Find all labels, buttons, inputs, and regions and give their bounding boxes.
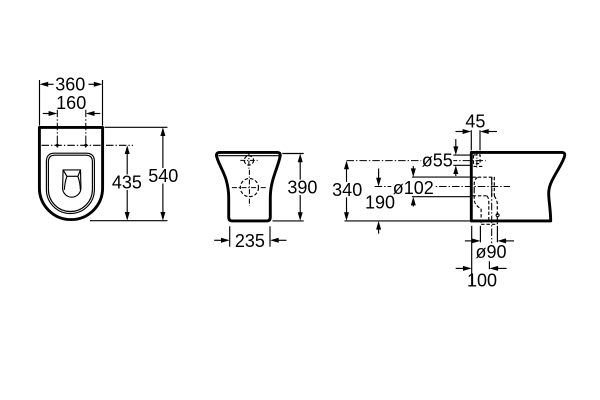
plan-view flush funnel outer outline (63, 170, 81, 197)
dim 190 lower arrow (outside, pointing up) (376, 221, 381, 230)
trap joint collar right line (hidden) (493, 177, 495, 196)
dim ø90 left arrow (472, 238, 481, 243)
front-view rim back edge line (218, 155, 279, 157)
dim 160 left extension line (dash-dot) (56, 110, 58, 146)
svg-text:100: 100 (467, 271, 497, 291)
svg-text:160: 160 (56, 93, 86, 113)
dim 390 top arrow (298, 154, 303, 163)
dim 360 right extension line (102, 80, 104, 126)
plan-view seat rim outer line (46, 153, 94, 213)
dim 435 bottom arrow (125, 212, 130, 221)
dim 340 top arrow (344, 161, 349, 170)
dim 45 left arrow (463, 129, 472, 134)
dim label ø102 (391, 180, 435, 196)
plan-view funnel left taper line (63, 170, 67, 176)
toilet side-view body outline (471, 152, 564, 221)
toilet plan-view body outline (39, 127, 102, 219)
trap inner elbow curve (hidden) (487, 196, 489, 221)
svg-text:235: 235 (235, 231, 265, 251)
dim 390 bottom arrow (298, 212, 303, 221)
dim 390 top extension line (282, 153, 303, 155)
dim 45 left extension line (470, 130, 472, 150)
svg-text:435: 435 (112, 173, 142, 193)
small fixing hole circle (496, 214, 499, 217)
horizontal outlet centre line (dash-dot) (375, 186, 510, 188)
dim 360 left arrow (40, 82, 49, 87)
water inlet socket (dashed rect) (474, 155, 481, 164)
dim 540 bottom arrow (160, 212, 165, 221)
dim ø55 bottom extension line (451, 164, 471, 166)
dim 100 right extension line (488, 261, 490, 269)
floor extension line (345, 220, 471, 222)
inlet hole vertical centre line (248, 151, 250, 169)
vertical outlet bottom cap (hidden) (481, 223, 497, 225)
dim 540 top extension line (105, 126, 168, 128)
trap joint collar left line (hidden) (491, 177, 493, 196)
dim 340 bottom arrow (344, 212, 349, 221)
plan-view seat rim inner line (48, 155, 92, 211)
dim label ø55 (421, 152, 453, 168)
dim ø55 upper arrow (453, 146, 458, 155)
dim 160 right extension line (dash-dot) (85, 110, 87, 146)
plan-view fixing-holes centre line (dash-dot) (42, 144, 134, 146)
outlet hole horizontal centre line (232, 187, 267, 189)
dim 390 bottom extension line (273, 220, 304, 222)
svg-text:ø55: ø55 (422, 151, 453, 171)
svg-text:340: 340 (332, 180, 362, 200)
dim 540 top arrow (160, 127, 165, 136)
toilet front-view body outline (216, 152, 280, 221)
front-view outlet hole circle (dashed) (240, 179, 258, 197)
dim ø102 upper arrow (411, 168, 416, 177)
dim ø102 top extension line (412, 176, 470, 178)
dim label 190 (364, 194, 397, 210)
water inlet lower hidden edge (474, 165, 484, 167)
dim ø102 bottom extension line (412, 196, 470, 198)
dim ø90 left extension line (479, 226, 481, 243)
trap end-face curve at wall (hidden) (474, 177, 477, 190)
dim label 435 (110, 174, 143, 190)
dim 235 left arrow (221, 238, 230, 243)
dim 235 left extension line (229, 226, 231, 246)
dim 160 right arrow (86, 111, 95, 116)
svg-text:ø102: ø102 (393, 178, 434, 198)
trap left elbow curve down to vertical outlet (hidden) (474, 190, 481, 224)
dim 45 right extension line (479, 130, 481, 150)
dim 100 left arrow (463, 266, 472, 271)
inlet vertical centre line (476, 151, 478, 168)
dim ø55 top extension line (451, 154, 471, 156)
plan-view funnel hole left side (64, 176, 67, 190)
dim 235 right arrow (270, 238, 279, 243)
dim ø55 lower arrow (453, 165, 458, 174)
dim label 540 (147, 168, 180, 184)
dim ø102 lower arrow (411, 197, 416, 206)
dim 190 upper arrow (outside, pointing down) (376, 178, 381, 187)
dim 390 dimension line (299, 157, 301, 217)
dim ø90 right arrow (497, 238, 506, 243)
svg-text:360: 360 (55, 75, 85, 95)
trap horizontal outlet top edge (hidden) (473, 176, 492, 178)
dim 435 dimension line (126, 149, 128, 217)
plan-view funnel hole right side (78, 176, 81, 190)
front-view cistern inlet hole circle (dashed) (244, 156, 253, 165)
dim ø90 right extension line (496, 226, 498, 243)
right fixing-hole marker diamond (83, 143, 89, 149)
svg-text:45: 45 (465, 112, 485, 132)
svg-text:190: 190 (365, 192, 395, 212)
dim 435 top arrow (125, 145, 130, 154)
dim 540 dimension line (162, 131, 164, 217)
dim label 390 (286, 180, 319, 196)
svg-text:ø90: ø90 (475, 242, 506, 262)
dim 160 left arrow (49, 111, 58, 116)
outlet hole vertical centre line (248, 170, 250, 206)
svg-text:390: 390 (287, 178, 317, 198)
dim 360 right arrow (94, 82, 103, 87)
dim 360 left extension line (39, 80, 41, 126)
inlet hole horizontal centre line (240, 159, 257, 161)
plan-view flush funnel inner top edge (67, 175, 78, 177)
dim 45 right arrow (480, 129, 489, 134)
inlet horizontal centre line (dash-dot) (347, 160, 486, 162)
trap right edge curve to vertical outlet (hidden) (494, 196, 497, 224)
shared bottom extension line for 435/540 (90, 220, 168, 222)
dim 340 dimension line (346, 164, 348, 217)
vertical outlet centre line (dash-dot) (491, 177, 493, 243)
dim label 340 (331, 182, 364, 198)
dim 235 right extension line (269, 226, 271, 246)
left fixing-hole marker diamond (55, 143, 61, 149)
plan-view funnel right taper line (78, 170, 81, 176)
dim 100 right arrow (489, 266, 498, 271)
dim 100 left extension line (471, 226, 473, 287)
trap horizontal outlet bottom edge (hidden) (473, 195, 488, 197)
svg-text:540: 540 (148, 166, 178, 186)
